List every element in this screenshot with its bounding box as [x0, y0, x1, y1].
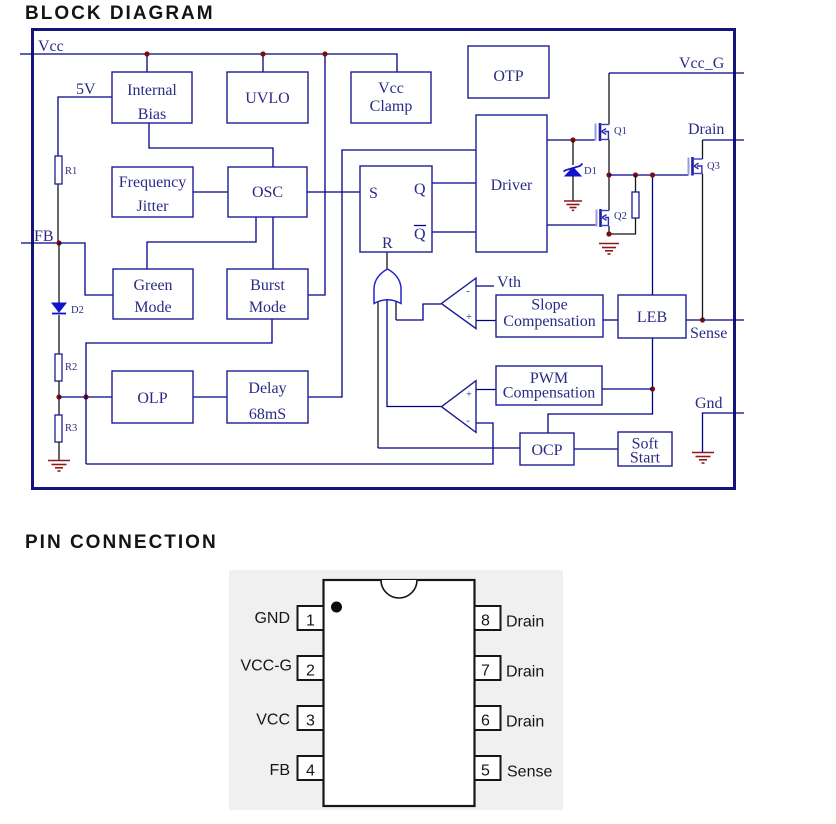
svg-text:5V: 5V: [76, 81, 96, 98]
block Green Mode: [113, 269, 193, 319]
wire R2 to junction to R3: [58, 381, 60, 415]
svg-text:8: 8: [481, 613, 490, 630]
wire sense resistor bottom lead: [609, 218, 636, 234]
svg-text:Green: Green: [133, 277, 172, 294]
svg-text:BLOCK DIAGRAM: BLOCK DIAGRAM: [25, 3, 215, 24]
svg-text:VCC: VCC: [256, 712, 290, 729]
block UVLO U2: [227, 72, 308, 123]
svg-text:-: -: [466, 286, 470, 297]
wire LEB bottom to OCP: [548, 338, 653, 433]
svg-text:GND: GND: [254, 610, 290, 627]
pin 6: [475, 706, 501, 730]
svg-text:2: 2: [306, 663, 315, 680]
svg-text:Compensation: Compensation: [503, 385, 595, 402]
zener diode D1: [564, 140, 597, 201]
ground below Q2 source: [599, 244, 619, 255]
wire Gnd rail: [703, 413, 745, 452]
svg-text:Q3: Q3: [707, 161, 720, 172]
wire FB lead: [21, 242, 59, 244]
svg-text:PIN CONNECTION: PIN CONNECTION: [25, 532, 218, 553]
svg-text:OSC: OSC: [252, 184, 283, 201]
wire Q1 source node to Q3 gate: [609, 174, 689, 176]
block Frequency Jitter: [112, 167, 193, 217]
block OLP: [112, 371, 193, 423]
junction dot on OLP input: [83, 394, 88, 399]
wire OCP to Soft Start: [574, 448, 618, 450]
pin 3: [298, 706, 324, 730]
pin 1: [298, 606, 324, 630]
block Delay 68mS: [227, 371, 308, 423]
wire Driver to Q1 gate: [547, 139, 595, 141]
OR gate: [374, 269, 401, 304]
svg-text:6: 6: [481, 713, 490, 730]
svg-text:OTP: OTP: [493, 68, 523, 85]
resistor R2: [55, 354, 62, 381]
wire LEB to Sense: [686, 319, 744, 321]
wire Vth stub: [476, 285, 494, 287]
resistor R1: [55, 156, 62, 184]
svg-text:+: +: [466, 390, 472, 401]
junction dot Sense node: [700, 317, 705, 322]
comparator PWM (U5): [442, 381, 477, 433]
wire OSC to Burst Mode top: [272, 217, 274, 269]
svg-text:Delay: Delay: [248, 380, 286, 397]
block OTP: [468, 46, 549, 98]
svg-text:Vcc: Vcc: [38, 38, 64, 55]
block Vcc Clamp: [351, 72, 431, 123]
sense resistor: [632, 192, 639, 218]
wire Vcc_G rail: [609, 72, 744, 74]
pin 8: [475, 606, 501, 630]
block Burst Mode: [227, 269, 308, 319]
block Soft Start: [618, 432, 672, 467]
svg-text:VCC-G: VCC-G: [240, 658, 292, 675]
svg-text:Q: Q: [414, 181, 426, 198]
svg-text:Burst: Burst: [250, 277, 285, 294]
comparator slope (U4): [441, 278, 476, 329]
svg-text:Start: Start: [630, 450, 661, 467]
pin 5: [475, 756, 501, 780]
block PWM Compensation: [496, 366, 602, 405]
wire D2 to R2: [58, 315, 60, 354]
transistor Q1: [596, 123, 627, 141]
svg-text:1: 1: [306, 613, 315, 630]
svg-text:Driver: Driver: [491, 177, 533, 194]
wire R3 to ground: [58, 442, 60, 460]
wire Delay 68mS up to Driver: [307, 150, 476, 397]
junction dot LEB branch: [650, 172, 655, 177]
wire Frequency Jitter to OSC: [193, 191, 228, 193]
wire Q3 drain to Drain rail: [702, 140, 704, 159]
svg-text:R: R: [382, 235, 393, 252]
block Slope Compensation: [496, 295, 603, 337]
svg-text:Internal: Internal: [127, 82, 177, 99]
wire slope comparator plus to Slope Compensation: [476, 320, 496, 322]
svg-text:Q1: Q1: [614, 126, 627, 137]
IC package body: [324, 580, 475, 806]
svg-text:Vth: Vth: [497, 274, 521, 291]
block Driver: [476, 115, 547, 252]
junction dot PWM comp node: [650, 386, 655, 391]
wire FB to Green Mode: [59, 243, 113, 295]
wire Vcc rail: [20, 54, 397, 72]
svg-text:R1: R1: [65, 166, 77, 177]
junction dot sense resistor top: [633, 172, 638, 177]
wire Drain rail: [703, 139, 745, 141]
wire Slope Compensation to LEB: [603, 319, 618, 321]
svg-text:Frequency: Frequency: [119, 174, 187, 191]
wire sense resistor top lead: [635, 175, 637, 192]
wire Burst Mode bottom to feedback bus: [86, 319, 272, 464]
wire OSC to S input: [307, 191, 360, 193]
svg-text:OLP: OLP: [137, 390, 167, 407]
wire Q2 source to ground: [608, 226, 610, 234]
wire Q3 source to Sense node: [702, 174, 704, 321]
svg-text:Bias: Bias: [138, 106, 166, 123]
svg-text:Sense: Sense: [690, 325, 727, 342]
svg-text:4: 4: [306, 763, 315, 780]
pin 1 marker dot: [331, 602, 342, 613]
svg-text:Drain: Drain: [506, 614, 544, 631]
svg-text:D1: D1: [584, 166, 597, 177]
junction dot Q1 source node: [606, 172, 611, 177]
wire Vcc to UVLO: [262, 54, 264, 72]
IC notch: [381, 580, 417, 598]
svg-text:Q2: Q2: [614, 211, 627, 222]
junction dot R2-R3 divider: [56, 394, 61, 399]
wire OR right input from slope comparator: [395, 301, 397, 320]
ground below D1: [564, 201, 582, 210]
transistor Q2: [597, 209, 627, 227]
svg-text:Slope: Slope: [531, 297, 567, 314]
svg-text:3: 3: [306, 713, 315, 730]
svg-text:OCP: OCP: [531, 442, 562, 459]
wire Q1 source to Q2 drain: [608, 140, 610, 211]
wire OR middle input from PWM comparator: [387, 299, 441, 407]
svg-text:-: -: [466, 416, 470, 427]
wire R input from OR gate: [386, 252, 388, 269]
svg-text:7: 7: [481, 663, 490, 680]
wire Q output to Driver: [432, 182, 476, 184]
wire Qbar output to Driver: [432, 231, 476, 233]
svg-text:Jitter: Jitter: [137, 198, 170, 215]
wire feedback bus to PWM comparator minus: [86, 423, 493, 464]
svg-text:Mode: Mode: [249, 299, 286, 316]
outer border frame: [33, 30, 735, 489]
resistor R3: [55, 415, 62, 442]
svg-text:Compensation: Compensation: [503, 313, 595, 330]
wire 5V to Internal Bias and down to R1: [58, 97, 112, 156]
svg-text:Q: Q: [414, 226, 426, 243]
ground at Gnd pin: [692, 453, 714, 464]
svg-text:Drain: Drain: [506, 664, 544, 681]
block OCP: [520, 433, 574, 465]
wire FB node down to D2: [58, 243, 60, 303]
svg-text:D2: D2: [71, 305, 84, 316]
wire OLP to Delay: [193, 396, 227, 398]
wire Internal Bias to OSC top: [149, 123, 273, 167]
svg-text:Vcc: Vcc: [378, 80, 404, 97]
block LEB: [618, 295, 686, 338]
junction dot D1 node: [570, 137, 575, 142]
block OSC: [228, 167, 307, 217]
pin 7: [475, 656, 501, 680]
svg-text:Drain: Drain: [688, 121, 724, 138]
svg-text:R3: R3: [65, 423, 77, 434]
transistor Q3: [689, 157, 720, 176]
svg-text:Sense: Sense: [507, 764, 552, 781]
svg-text:LEB: LEB: [637, 309, 667, 326]
svg-text:5: 5: [481, 763, 490, 780]
wire Vcc to Internal Bias: [146, 54, 148, 72]
svg-text:UVLO: UVLO: [245, 90, 289, 107]
svg-text:Gnd: Gnd: [695, 395, 723, 412]
svg-text:FB: FB: [270, 762, 290, 779]
wire PWM comparator plus to PWM Compensation: [476, 389, 496, 391]
wire Q1 drain to Vcc_G: [608, 73, 610, 125]
junction dots on Vcc rail: [144, 51, 149, 56]
junction dot FB node: [56, 240, 61, 245]
wire Vcc to Burst Mode right: [308, 54, 325, 295]
block SR latch U3: [360, 166, 432, 252]
wire OR left input from OCP: [377, 301, 379, 448]
svg-text:Vcc_G: Vcc_G: [679, 55, 725, 72]
wire PWM Compensation to LEB-OCP line: [602, 388, 653, 390]
block Internal Bias: [112, 72, 192, 123]
wire R1 to FB node: [57, 184, 59, 243]
wire divider node to OLP: [59, 396, 112, 398]
svg-text:S: S: [369, 185, 378, 202]
svg-text:Mode: Mode: [134, 299, 171, 316]
diode D2: [52, 303, 84, 316]
gray backdrop: [229, 570, 563, 810]
svg-text:+: +: [466, 312, 472, 323]
svg-text:Drain: Drain: [506, 714, 544, 731]
svg-text:R2: R2: [65, 362, 77, 373]
pin 2: [298, 656, 324, 680]
pin 4: [298, 756, 324, 780]
junction dot Q2 source node: [606, 231, 611, 236]
svg-text:Clamp: Clamp: [370, 98, 413, 115]
svg-text:68mS: 68mS: [249, 406, 286, 423]
wire Driver to Q2 gate: [547, 224, 596, 226]
ground below R3: [48, 461, 70, 472]
wire OCP to OR gate: [378, 447, 520, 449]
wire slope comparator output: [396, 304, 441, 320]
wire OSC to Green Mode top: [147, 217, 256, 269]
wire LEB top from current sense: [652, 175, 654, 295]
